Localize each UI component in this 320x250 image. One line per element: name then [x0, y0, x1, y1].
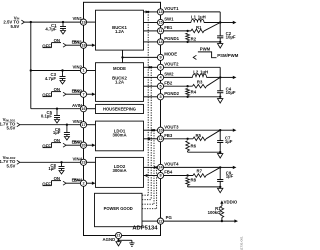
svg-text:300mA: 300mA	[112, 168, 126, 173]
svg-text:ADP5134: ADP5134	[132, 226, 158, 232]
svg-text:POWER GOOD: POWER GOOD	[104, 206, 133, 211]
svg-text:HOUSEKEEPING: HOUSEKEEPING	[103, 106, 136, 111]
svg-text:4.7µF: 4.7µF	[45, 27, 56, 32]
svg-text:PSM/PWM: PSM/PWM	[217, 53, 238, 58]
svg-text:5: 5	[159, 84, 161, 88]
svg-text:VIN2: VIN2	[72, 65, 82, 70]
svg-text:9: 9	[159, 56, 161, 60]
svg-text:1µH: 1µH	[198, 14, 206, 19]
svg-text:SW1: SW1	[164, 17, 174, 22]
svg-text:R6: R6	[191, 143, 197, 148]
svg-text:13: 13	[158, 10, 162, 14]
svg-text:VOUT3: VOUT3	[164, 124, 179, 129]
svg-text:1µF: 1µF	[53, 130, 61, 135]
svg-text:16: 16	[81, 107, 85, 111]
svg-text:EN4: EN4	[72, 178, 81, 183]
svg-text:SW2: SW2	[164, 72, 174, 77]
svg-text:2: 2	[82, 181, 84, 185]
svg-text:1µF: 1µF	[225, 139, 233, 144]
svg-text:5.5V: 5.5V	[7, 163, 16, 168]
svg-text:R3: R3	[197, 79, 203, 84]
svg-text:R1: R1	[196, 25, 202, 30]
svg-text:19: 19	[81, 20, 85, 24]
svg-text:OFF: OFF	[42, 143, 51, 148]
svg-text:100kΩ: 100kΩ	[208, 210, 222, 215]
svg-text:VIN4: VIN4	[72, 156, 82, 161]
svg-text:8: 8	[159, 174, 161, 178]
svg-text:1.2A: 1.2A	[115, 79, 124, 84]
svg-text:7: 7	[82, 92, 84, 96]
svg-text:10: 10	[158, 128, 162, 132]
svg-text:L2: L2	[193, 69, 199, 74]
svg-text:23: 23	[81, 161, 85, 165]
svg-text:FB4: FB4	[164, 170, 173, 175]
svg-text:EN3: EN3	[72, 140, 81, 145]
svg-text:VIN1: VIN1	[72, 16, 82, 21]
svg-text:EN2: EN2	[72, 89, 81, 94]
svg-text:AGND: AGND	[103, 237, 116, 242]
svg-text:21: 21	[116, 234, 120, 238]
svg-text:PGND1: PGND1	[164, 36, 179, 41]
svg-text:OFF: OFF	[42, 43, 51, 48]
svg-text:5.5V: 5.5V	[10, 24, 19, 29]
svg-text:11: 11	[158, 29, 162, 33]
svg-text:12: 12	[158, 137, 162, 141]
svg-text:6: 6	[159, 66, 161, 70]
svg-text:15: 15	[158, 21, 162, 25]
svg-text:11731-001: 11731-001	[239, 236, 243, 250]
svg-text:FB1: FB1	[164, 25, 173, 30]
svg-text:ON: ON	[54, 176, 60, 181]
svg-text:R8: R8	[191, 178, 197, 183]
svg-text:EN1: EN1	[72, 40, 81, 45]
svg-text:MODE: MODE	[113, 66, 126, 71]
svg-text:0.1µF: 0.1µF	[41, 113, 52, 118]
svg-text:1µF: 1µF	[48, 166, 56, 171]
svg-text:10µF: 10µF	[226, 90, 236, 95]
svg-text:R5: R5	[196, 133, 202, 138]
svg-text:3: 3	[159, 95, 161, 99]
svg-text:R2: R2	[191, 37, 197, 42]
svg-text:22: 22	[158, 219, 162, 223]
svg-text:FB2: FB2	[164, 80, 173, 85]
svg-text:ON: ON	[54, 38, 60, 43]
svg-text:OFF: OFF	[42, 92, 51, 97]
svg-text:10µF: 10µF	[226, 34, 236, 39]
svg-text:VOUT2: VOUT2	[164, 61, 179, 66]
svg-text:OFF: OFF	[42, 181, 51, 186]
svg-text:ON: ON	[54, 138, 60, 143]
svg-text:PWM: PWM	[200, 46, 211, 51]
svg-text:VIN3: VIN3	[72, 119, 82, 124]
svg-text:FB3: FB3	[164, 133, 173, 138]
svg-text:1.2A: 1.2A	[115, 29, 124, 34]
svg-text:L1: L1	[191, 14, 197, 19]
svg-text:PG: PG	[166, 215, 173, 220]
svg-text:ON: ON	[54, 87, 60, 92]
svg-text:20: 20	[81, 143, 85, 147]
svg-text:AVIN: AVIN	[72, 103, 82, 108]
svg-text:4.7µF: 4.7µF	[45, 76, 56, 81]
svg-text:300mA: 300mA	[112, 133, 126, 138]
svg-text:VOUT1: VOUT1	[164, 6, 179, 11]
svg-text:PGND2: PGND2	[164, 91, 179, 96]
svg-text:1: 1	[82, 69, 84, 73]
svg-text:R7: R7	[197, 168, 203, 173]
svg-text:17: 17	[81, 123, 85, 127]
svg-text:1µF: 1µF	[226, 174, 234, 179]
svg-text:18: 18	[81, 43, 85, 47]
svg-text:5.5V: 5.5V	[7, 126, 16, 131]
svg-text:VOUT4: VOUT4	[164, 162, 179, 167]
svg-text:R4: R4	[191, 90, 197, 95]
svg-text:1µH: 1µH	[200, 69, 208, 74]
svg-text:VDDIO: VDDIO	[224, 200, 238, 205]
svg-text:MODE: MODE	[164, 52, 177, 57]
